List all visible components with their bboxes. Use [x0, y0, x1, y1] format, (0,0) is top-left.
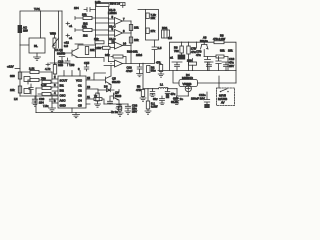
capacitor C16 — [216, 57, 235, 71]
svg-text:10k: 10k — [10, 88, 15, 92]
resistor R9 — [38, 92, 52, 95]
svg-text:10k: 10k — [90, 48, 95, 52]
svg-text:T-P1: T-P1 — [34, 7, 40, 11]
svg-text:300: 300 — [10, 74, 15, 78]
resistor R7 — [41, 77, 52, 84]
capacitor C8 — [29, 84, 33, 94]
svg-text:10k: 10k — [228, 49, 233, 53]
svg-text:+1: +1 — [69, 36, 73, 40]
potentiometer VR1 — [50, 32, 59, 65]
ground — [49, 108, 56, 112]
wire emitter — [78, 58, 104, 62]
resistor R5 — [20, 67, 52, 80]
IC U2 — [20, 38, 45, 57]
wire main rail right — [170, 42, 237, 83]
svg-text:27k: 27k — [151, 29, 156, 33]
svg-text:24k: 24k — [105, 53, 110, 57]
svg-text:IN2: IN2 — [60, 89, 65, 93]
resistor R24 — [174, 42, 183, 54]
wire lower bus — [104, 103, 128, 105]
svg-text:0+: 0+ — [180, 97, 184, 101]
svg-text:OSC: OSC — [60, 94, 66, 98]
crystal X1 — [162, 26, 170, 38]
svg-text:BR1: BR1 — [162, 26, 168, 30]
svg-text:100uF 16V: 100uF 16V — [191, 97, 205, 101]
op-amp U1-C — [96, 25, 123, 37]
capacitor C1 — [55, 48, 65, 63]
svg-text:VR50B: VR50B — [183, 82, 192, 86]
wire pins left — [52, 79, 58, 103]
capacitor C31 — [43, 96, 55, 108]
svg-text:47R: 47R — [136, 88, 141, 92]
svg-text:4.7k: 4.7k — [45, 67, 51, 71]
svg-text:+12V: +12V — [7, 65, 14, 69]
resistor R6 — [28, 78, 52, 84]
resistor R17 — [95, 46, 110, 50]
capacitor C41 — [205, 62, 213, 71]
resistor R16 — [94, 37, 104, 44]
node jumper — [24, 77, 30, 94]
svg-text:2k2: 2k2 — [83, 34, 88, 38]
svg-text:10k: 10k — [134, 26, 139, 30]
svg-text:702: 702 — [174, 49, 179, 53]
svg-text:10k: 10k — [151, 16, 156, 20]
wire — [36, 96, 72, 113]
resistor R26 label — [127, 50, 143, 58]
capacitor C36 — [174, 96, 184, 105]
svg-text:RL: RL — [34, 44, 38, 48]
diode D6 — [98, 85, 114, 94]
node + — [66, 34, 73, 40]
op-amp U1-A — [104, 60, 123, 67]
resistor R41 — [117, 104, 123, 116]
node input bus — [108, 5, 110, 62]
svg-text:25V: 25V — [132, 110, 137, 114]
svg-text:LN: LN — [14, 97, 18, 101]
svg-text:7: 7 — [123, 17, 125, 21]
buzzer BZ1 — [179, 73, 198, 92]
svg-text:O2: O2 — [78, 89, 82, 93]
capacitor C24 — [116, 105, 122, 112]
op-amp U1-B — [96, 8, 123, 24]
transistor Q2 — [57, 48, 78, 58]
wire bottom-left — [20, 95, 58, 97]
svg-text:1.5: 1.5 — [168, 36, 172, 40]
shield box Z1 — [138, 10, 159, 41]
svg-text:9014D: 9014D — [112, 80, 120, 84]
svg-text:10k4: 10k4 — [136, 53, 143, 57]
svg-text:63v: 63v — [153, 97, 158, 101]
resistor R14 — [75, 25, 109, 32]
svg-text:0.5W: 0.5W — [151, 105, 158, 109]
resistor R11 — [85, 47, 95, 55]
resistor R18 — [146, 13, 156, 20]
connector J1 — [18, 25, 29, 33]
capacitor C18 — [191, 92, 210, 108]
capacitor C17 — [171, 97, 179, 105]
svg-text:IN1: IN1 — [60, 84, 65, 88]
svg-text:47uF: 47uF — [126, 69, 133, 73]
node R8-2 — [110, 2, 125, 8]
wire — [50, 62, 67, 64]
svg-text:D6: D6 — [104, 85, 108, 89]
svg-text:VCC: VCC — [76, 79, 82, 83]
op-amp U1-D — [96, 37, 123, 49]
wire output — [123, 63, 155, 65]
svg-text:8: 8 — [123, 29, 125, 33]
resistor R3 — [10, 72, 22, 79]
svg-text:SOUT: SOUT — [60, 79, 68, 83]
node output terminal — [170, 55, 185, 60]
svg-text:10k: 10k — [134, 38, 139, 42]
capacitor C10 — [152, 40, 162, 63]
wire buzzer leads — [173, 71, 236, 97]
wire pins right — [86, 73, 106, 104]
resistor R40 — [94, 94, 104, 104]
transistor Q4 — [200, 36, 208, 57]
capacitor C33 — [125, 104, 138, 115]
svg-text:O3: O3 — [78, 94, 82, 98]
capacitor C15b — [196, 42, 211, 70]
svg-text:O5: O5 — [78, 104, 82, 108]
resistor R20 — [129, 25, 139, 31]
resistor R25 — [187, 42, 196, 70]
capacitor C34 — [150, 89, 155, 97]
svg-text:104: 104 — [74, 6, 79, 10]
resistor R34 — [96, 93, 99, 104]
node + — [66, 22, 73, 28]
node ladder bus — [130, 21, 132, 63]
svg-text:O4: O4 — [78, 99, 82, 103]
switch SW1 — [218, 89, 229, 105]
resistor R43 — [136, 85, 146, 102]
svg-text:14: 14 — [123, 41, 127, 45]
svg-text:AGC: AGC — [60, 99, 66, 103]
svg-text:220: 220 — [23, 29, 28, 33]
svg-text:GND: GND — [60, 104, 66, 108]
svg-text:T.50: T.50 — [69, 63, 75, 67]
svg-text:82k: 82k — [220, 49, 225, 53]
ground — [34, 57, 41, 60]
svg-text:9013: 9013 — [115, 94, 122, 98]
resistor R8 — [36, 83, 52, 96]
svg-text:R8-2 L4: R8-2 L4 — [110, 2, 120, 6]
resistor R28 — [216, 49, 233, 59]
svg-text:2.2k: 2.2k — [29, 67, 35, 71]
resistor R21 — [129, 37, 139, 43]
transformer T1 — [20, 7, 62, 96]
capacitor C3 — [74, 6, 96, 12]
resistor R10 — [95, 0, 109, 6]
resistor R38 — [187, 59, 197, 71]
svg-text:7.5u: 7.5u — [43, 104, 49, 108]
svg-text:1.5: 1.5 — [158, 46, 162, 50]
transistor Q6 — [111, 90, 122, 105]
node pin digits — [112, 15, 127, 45]
resistor R45 — [147, 66, 157, 73]
resistor R4 — [10, 86, 22, 93]
wire top feedback — [96, 3, 126, 6]
svg-text:L1: L1 — [160, 83, 164, 87]
ground bus — [36, 112, 112, 114]
svg-text:12: 12 — [112, 40, 116, 44]
resistor R19 — [146, 28, 156, 34]
capacitor C40 — [172, 62, 182, 71]
capacitor C37 — [165, 89, 175, 99]
inductor L1 — [143, 83, 177, 89]
resistor R31 — [156, 61, 164, 78]
svg-text:1.5M: 1.5M — [95, 46, 102, 50]
svg-text:47u: 47u — [196, 53, 201, 57]
node +12V — [7, 65, 20, 69]
ground — [95, 104, 101, 107]
svg-text:AV: AV — [221, 101, 225, 105]
capacitor C32 — [108, 96, 119, 114]
svg-text:+1: +1 — [69, 24, 73, 28]
svg-text:o1: o1 — [170, 56, 174, 60]
resistor R22 — [105, 53, 126, 64]
wire second rail — [204, 57, 228, 71]
capacitor C15 — [84, 61, 90, 71]
resistor R12 — [75, 13, 109, 20]
capacitor C42 — [222, 62, 230, 71]
svg-text:63-6u: 63-6u — [171, 100, 179, 104]
resistor R44 — [145, 89, 158, 115]
svg-text:O1: O1 — [78, 84, 82, 88]
switch box SW1 dashed — [217, 88, 235, 106]
capacitor C14 — [58, 58, 70, 67]
node bias bus — [95, 3, 97, 58]
svg-text:W50: W50 — [50, 32, 56, 36]
ground bus right — [158, 70, 236, 72]
wire top pins — [64, 71, 80, 77]
IC U3 — [58, 76, 86, 108]
svg-text:47k: 47k — [156, 61, 161, 65]
svg-text:0.5: 0.5 — [64, 44, 68, 48]
node +12 label — [64, 41, 83, 49]
resistor R27 — [213, 34, 225, 44]
transistor Q5 — [94, 66, 120, 89]
capacitor C30 — [32, 96, 45, 106]
capacitor C13 — [126, 64, 142, 77]
wire collector — [78, 45, 96, 49]
wire outputs to ladder — [123, 21, 132, 46]
svg-text:750: 750 — [41, 77, 46, 81]
svg-text:56o: 56o — [151, 69, 156, 73]
svg-text:1b: 1b — [60, 63, 64, 67]
wire down to output stage — [142, 64, 144, 89]
capacitor C35 — [153, 96, 165, 105]
ground — [73, 113, 80, 118]
svg-text:47u: 47u — [171, 92, 176, 96]
resistor R2 — [45, 63, 57, 76]
svg-text:25V: 25V — [229, 64, 234, 68]
